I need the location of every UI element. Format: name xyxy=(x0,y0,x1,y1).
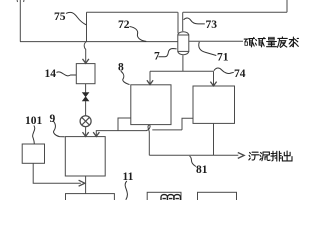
tank 8 xyxy=(131,85,171,125)
label leader 14 xyxy=(57,72,77,76)
wire: branch down to unit 14 xyxy=(84,42,86,63)
svg-text:11: 11 xyxy=(123,171,134,183)
clear water tank (right bottom) xyxy=(198,192,237,204)
filter vessel 7 bottom dome xyxy=(178,51,189,54)
svg-text:14: 14 xyxy=(45,68,57,80)
text: sludge discharge (drawn glyphs) xyxy=(249,151,292,161)
svg-text:81: 81 xyxy=(196,164,208,176)
svg-text:8: 8 xyxy=(118,62,124,74)
wire: distribution header xyxy=(150,70,214,72)
label leader 74 xyxy=(214,68,234,73)
svg-text:7: 7 xyxy=(154,51,160,63)
wire: transfer line to tank 9 xyxy=(96,131,146,136)
wire: top line 72 segment xyxy=(87,11,178,13)
wire: wastewater inlet line 71 xyxy=(189,40,243,42)
label leader 71 xyxy=(199,42,217,56)
svg-text:74: 74 xyxy=(234,68,246,80)
arrowhead into tank 9 right port xyxy=(93,132,99,136)
label leader 11 xyxy=(125,181,127,200)
label leader 75 xyxy=(66,12,86,24)
bottom settling tank (left) xyxy=(66,194,115,204)
wire: 73 riser exits top xyxy=(286,0,288,12)
wire: tank9 bottom to bottom tank xyxy=(85,176,87,194)
wire: box101 outlet to tank9 downpipe xyxy=(33,163,81,183)
wire: vessel bottom outlet xyxy=(182,55,184,71)
box 14 chemical dosing unit xyxy=(76,64,95,84)
svg-text:71: 71 xyxy=(217,52,229,64)
glyph jian3 xyxy=(244,38,254,47)
feed arrow tick top-left xyxy=(17,0,24,2)
wire: sludge header to discharge xyxy=(149,154,238,156)
aerator dome 2 xyxy=(168,195,174,200)
glyph liang4 xyxy=(267,37,277,46)
text: alkali reduction wastewater (drawn glyphs) xyxy=(244,37,298,161)
label leader 9 xyxy=(53,121,64,137)
wire: pump to tank 9 xyxy=(85,127,87,136)
filter vessel 7 body xyxy=(178,35,189,51)
glyph shui3 xyxy=(289,37,298,47)
filter vessel 7 top dome xyxy=(178,32,189,35)
svg-text:73: 73 xyxy=(206,19,218,31)
wire: valve to pump xyxy=(85,101,87,116)
glyph pai2 xyxy=(271,151,281,161)
filter neck pipe right line xyxy=(182,12,184,31)
glyph jian3 (reduce) xyxy=(255,38,265,47)
arrowhead into tank 8 xyxy=(147,80,153,84)
arrowhead sludge discharge xyxy=(238,153,244,159)
arrowhead into downpipe xyxy=(79,180,85,186)
filter neck pipe left line xyxy=(177,12,179,33)
wire: tank74 left outlet step xyxy=(182,118,193,130)
label leader 72 xyxy=(130,27,147,42)
arrowhead into tank 9 left port xyxy=(83,132,89,136)
arrowhead into box 14 xyxy=(83,59,89,63)
wire: drop into tank 74 xyxy=(213,71,215,85)
wire: tank74 bottom outlet xyxy=(213,123,215,155)
reaction tank 9 xyxy=(65,137,105,176)
pump P1 (circled X) xyxy=(80,116,91,127)
glyph wu1 xyxy=(249,152,259,160)
glyph ni2 xyxy=(260,152,270,161)
tank 74 xyxy=(193,86,235,123)
wire: long horizontal feed line 72 xyxy=(20,41,178,43)
svg-text:75: 75 xyxy=(54,11,66,23)
wire: top line 73 segment xyxy=(183,11,287,13)
arrowhead into tank 74 xyxy=(210,82,216,86)
wire: drop into tank 8 xyxy=(149,71,151,84)
wire: riser x=86.5 to top line xyxy=(86,12,88,41)
svg-text:9: 9 xyxy=(50,113,56,125)
junction curl on transfer line xyxy=(146,125,150,133)
aerator dome 3 xyxy=(174,195,180,200)
label leader 81 xyxy=(190,156,197,167)
label leader 73 xyxy=(184,18,205,24)
glyph fei4 xyxy=(277,37,287,48)
aeration tank (middle bottom) xyxy=(147,192,181,204)
wire: sludge drop from junction xyxy=(148,133,150,156)
label leader 7 xyxy=(159,49,177,57)
label leader 101 xyxy=(33,126,35,144)
wire: transfer line right segment xyxy=(152,129,182,131)
svg-text:101: 101 xyxy=(25,115,43,127)
wire: box14 to valve xyxy=(85,84,87,93)
valve V1 (bowtie) xyxy=(82,93,88,101)
label leader 8 xyxy=(121,71,130,84)
wire: tank8 left outlet xyxy=(118,118,131,131)
svg-text:72: 72 xyxy=(118,19,130,31)
wire: left vertical drop xyxy=(19,0,21,42)
dosing box 101 xyxy=(22,144,44,163)
glyph chu1 xyxy=(282,151,292,161)
aerator dome 1 xyxy=(161,195,167,200)
